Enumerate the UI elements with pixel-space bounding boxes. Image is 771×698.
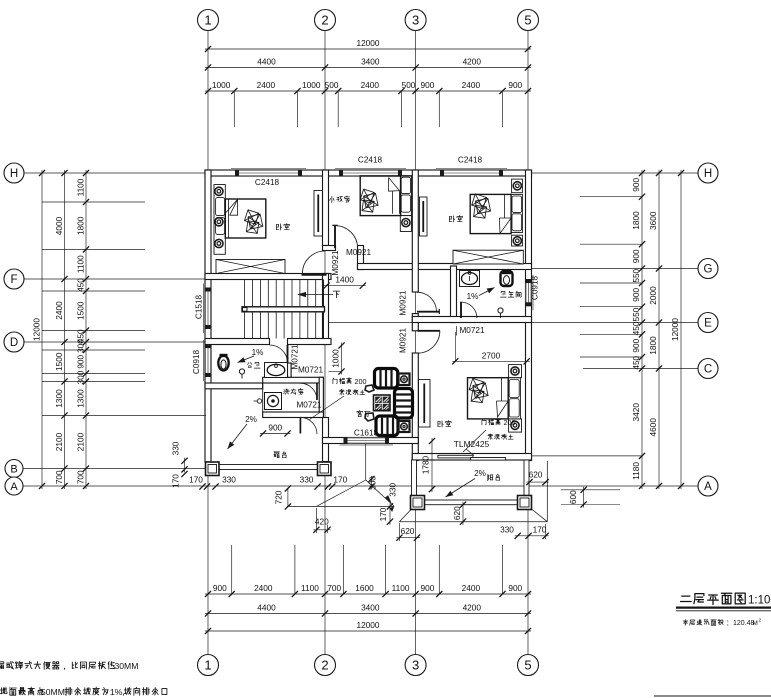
svg-text:1%: 1% [467, 292, 479, 301]
svg-text:2400: 2400 [54, 301, 64, 320]
svg-text:1100: 1100 [301, 583, 319, 593]
svg-text:1800: 1800 [631, 211, 641, 230]
svg-text:330: 330 [500, 525, 514, 535]
svg-text:4400: 4400 [257, 57, 276, 67]
svg-text:900: 900 [508, 583, 522, 593]
svg-text:200: 200 [355, 377, 367, 386]
svg-text:900: 900 [213, 583, 227, 593]
svg-text:450: 450 [631, 355, 641, 369]
svg-text:1%: 1% [252, 348, 264, 357]
svg-text:1100: 1100 [75, 178, 85, 196]
svg-text:2%: 2% [474, 469, 486, 478]
svg-text:30MM: 30MM [115, 661, 139, 671]
svg-text:3600: 3600 [648, 211, 658, 230]
svg-text:1000: 1000 [212, 80, 231, 90]
svg-text:：120.48: ：120.48 [726, 620, 755, 627]
svg-text:2400: 2400 [257, 80, 276, 90]
svg-text:F: F [10, 274, 17, 286]
svg-text:170: 170 [171, 474, 181, 488]
svg-text:M0921: M0921 [346, 248, 371, 257]
svg-text:700: 700 [54, 470, 64, 484]
svg-text:1300: 1300 [75, 389, 85, 408]
svg-text:1800: 1800 [75, 216, 85, 235]
svg-text:1100: 1100 [75, 255, 85, 273]
svg-text:C: C [704, 364, 712, 376]
svg-text:3400: 3400 [361, 57, 380, 67]
svg-text:4000: 4000 [54, 216, 64, 235]
svg-text:C1618: C1618 [354, 429, 379, 438]
svg-text:500: 500 [402, 80, 416, 90]
svg-text:1780: 1780 [421, 455, 431, 474]
svg-text:300: 300 [75, 339, 85, 353]
svg-text:200: 200 [504, 418, 516, 427]
svg-text:12000: 12000 [31, 318, 41, 341]
svg-text:1500: 1500 [54, 352, 64, 371]
svg-text:M0721: M0721 [296, 401, 321, 410]
svg-text:3400: 3400 [361, 603, 380, 613]
svg-text:C2418: C2418 [358, 156, 383, 165]
svg-text:330: 330 [222, 474, 236, 484]
svg-text:1500: 1500 [75, 301, 85, 320]
svg-text:A: A [704, 481, 712, 493]
svg-text:2: 2 [321, 13, 328, 28]
svg-text:M0921: M0921 [398, 328, 407, 353]
svg-text:2400: 2400 [462, 583, 481, 593]
svg-text:900: 900 [421, 583, 435, 593]
svg-text:450: 450 [631, 321, 641, 335]
svg-text:2700: 2700 [482, 351, 501, 361]
svg-text:1000: 1000 [331, 349, 341, 368]
svg-text:900: 900 [268, 423, 282, 433]
svg-text:1: 1 [204, 658, 211, 673]
svg-text:330: 330 [171, 441, 181, 455]
svg-text:330: 330 [388, 482, 398, 496]
svg-text:2100: 2100 [54, 432, 64, 451]
svg-text:2%: 2% [245, 415, 257, 424]
svg-text:A: A [10, 481, 18, 493]
svg-text:900: 900 [631, 338, 641, 352]
svg-text:1%,: 1%, [110, 687, 125, 697]
svg-text:550: 550 [631, 268, 641, 282]
svg-text:12000: 12000 [670, 318, 680, 341]
svg-text:C0918: C0918 [531, 275, 540, 300]
svg-text:900: 900 [631, 249, 641, 263]
svg-text:3: 3 [412, 658, 419, 673]
svg-text:12000: 12000 [356, 38, 379, 48]
svg-text:420: 420 [315, 517, 329, 527]
svg-text:700: 700 [327, 583, 341, 593]
svg-text:3420: 3420 [631, 403, 641, 422]
svg-text:550: 550 [631, 307, 641, 321]
svg-text:1600: 1600 [355, 583, 374, 593]
svg-text:M0921: M0921 [331, 250, 340, 275]
svg-text:3: 3 [412, 13, 419, 28]
svg-text:2400: 2400 [361, 80, 380, 90]
svg-text:2400: 2400 [462, 80, 481, 90]
svg-text:1800: 1800 [648, 336, 658, 355]
svg-text:C2418: C2418 [255, 178, 280, 187]
svg-text:900: 900 [631, 178, 641, 192]
svg-text:1180: 1180 [631, 462, 641, 480]
svg-text:1100: 1100 [392, 583, 410, 593]
svg-text:450: 450 [75, 278, 85, 292]
svg-text:5: 5 [524, 13, 531, 28]
svg-text:620: 620 [401, 526, 415, 536]
svg-text:B: B [10, 463, 17, 475]
svg-text:500: 500 [325, 80, 339, 90]
svg-text:M0721: M0721 [298, 366, 323, 375]
svg-text:M: M [753, 620, 758, 627]
svg-text:1300: 1300 [54, 389, 64, 408]
svg-text:720: 720 [274, 490, 284, 504]
svg-text:12000: 12000 [356, 620, 379, 630]
svg-text:900: 900 [421, 80, 435, 90]
svg-text:G: G [704, 264, 713, 276]
svg-text:2100: 2100 [75, 432, 85, 451]
svg-text:900: 900 [631, 288, 641, 302]
svg-text:300: 300 [367, 476, 377, 490]
svg-text:620: 620 [529, 470, 543, 480]
svg-text:C0918: C0918 [192, 349, 201, 374]
svg-text:2400: 2400 [254, 583, 273, 593]
svg-text:1: 1 [204, 13, 211, 28]
svg-text:D: D [10, 337, 18, 349]
svg-text:170: 170 [378, 507, 388, 521]
svg-text:330: 330 [300, 474, 314, 484]
svg-text:2000: 2000 [648, 286, 658, 305]
svg-text:700: 700 [75, 470, 85, 484]
svg-text:600: 600 [568, 490, 578, 504]
svg-text:50MM,: 50MM, [41, 687, 67, 697]
svg-text:4200: 4200 [463, 57, 482, 67]
svg-text:2: 2 [759, 618, 762, 623]
svg-text:900: 900 [508, 80, 522, 90]
svg-text:M0721: M0721 [459, 326, 484, 335]
svg-text:620: 620 [452, 506, 462, 520]
svg-text:C2418: C2418 [458, 156, 483, 165]
svg-text:4400: 4400 [257, 603, 276, 613]
svg-text:1:100: 1:100 [748, 595, 771, 607]
svg-text:170: 170 [333, 474, 347, 484]
svg-text:5: 5 [524, 658, 531, 673]
svg-text:900: 900 [75, 354, 85, 368]
svg-text:C1518: C1518 [195, 294, 204, 319]
svg-text:H: H [704, 168, 712, 180]
svg-text:170: 170 [533, 525, 547, 535]
svg-text:2: 2 [321, 658, 328, 673]
svg-text:E: E [704, 318, 712, 330]
svg-text:1000: 1000 [302, 80, 321, 90]
svg-text:170: 170 [189, 474, 203, 484]
svg-text:4200: 4200 [463, 603, 482, 613]
svg-text:4600: 4600 [648, 418, 658, 437]
svg-text:M0921: M0921 [398, 290, 407, 315]
svg-text:300: 300 [75, 370, 85, 384]
svg-text:H: H [10, 168, 18, 180]
